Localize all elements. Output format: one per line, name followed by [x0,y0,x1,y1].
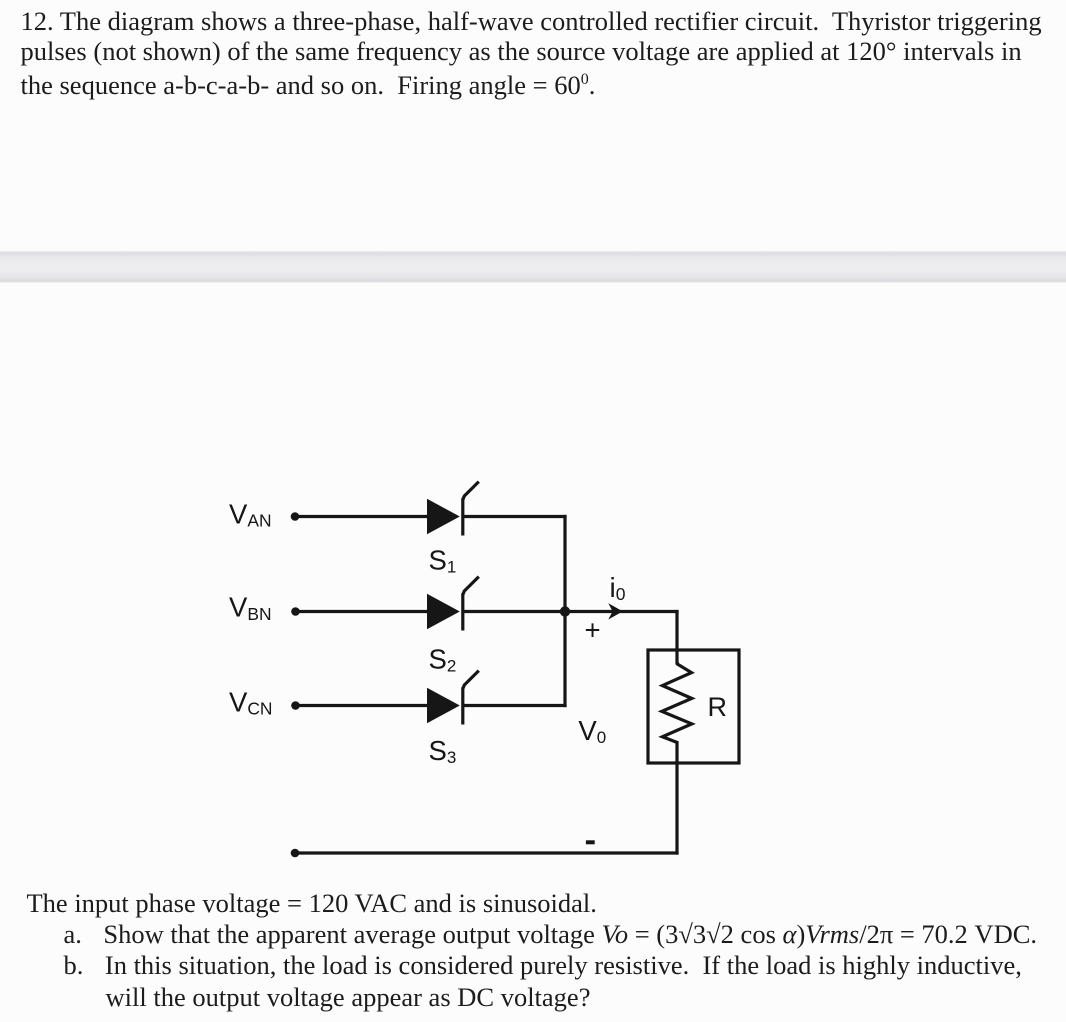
svg-text:R: R [708,692,728,722]
label - (negative terminal) [586,840,595,844]
paragraph: input phase voltage [27,890,597,917]
wire VCN to S3 anode [296,704,433,707]
node VCN terminal [291,701,300,710]
wire resistor to bottom rail [675,741,678,855]
wire S3 cathode to bus bottom corner [462,704,567,707]
svg-text:V0: V0 [578,715,606,747]
arrow io direction [608,603,623,619]
resistor R zigzag [662,662,692,743]
node VBN terminal [291,607,300,616]
wire S1 cathode to bus [462,515,567,518]
thyristor S1 [427,482,479,536]
paragraph: problem statement [21,8,1042,35]
page-break grey band [0,250,1066,283]
load box [648,650,739,763]
svg-text:S2: S2 [429,644,457,676]
wire load top corner down to resistor [675,610,678,664]
svg-text:VBN: VBN [229,592,272,624]
svg-text:i0: i0 [610,572,626,604]
svg-text:S3: S3 [429,735,457,767]
paragraph: item b [64,952,1022,979]
svg-text:S1: S1 [429,544,457,576]
wire bottom return rail [295,851,679,854]
node bottom-left terminal [291,849,300,858]
wire VBN to S2 anode [296,610,433,613]
node junction bus/output [560,606,570,616]
thyristor S3 [427,671,479,725]
paragraph: item a [64,921,1038,948]
wire S2 cathode to junction [462,610,565,613]
wire VAN to S1 anode [295,515,432,518]
thyristor S2 [427,577,479,631]
node VAN terminal [291,512,300,521]
wire output to load top corner [565,610,679,613]
svg-text:VAN: VAN [229,498,272,530]
wire cathode bus vertical [563,515,566,707]
svg-text:VCN: VCN [229,686,272,718]
svg-text:+: + [585,615,601,646]
